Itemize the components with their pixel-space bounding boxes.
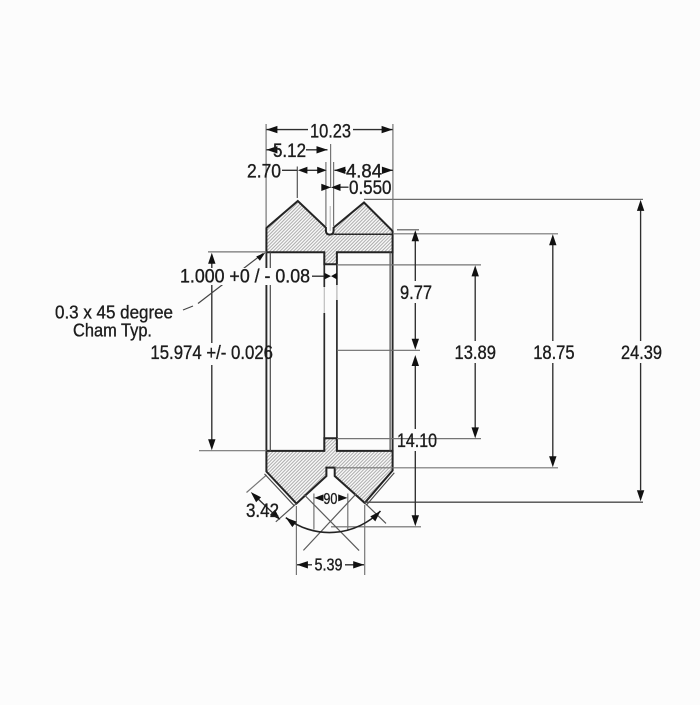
svg-text:15.974 +/- 0.026: 15.974 +/- 0.026 (150, 343, 273, 364)
svg-text:10.23: 10.23 (310, 121, 351, 142)
svg-text:9.77: 9.77 (400, 283, 432, 304)
svg-text:5.12: 5.12 (273, 141, 306, 162)
svg-text:18.75: 18.75 (533, 343, 574, 364)
svg-text:5.39: 5.39 (315, 555, 343, 575)
svg-text:2.70: 2.70 (247, 161, 281, 182)
svg-text:1.000 +0 / - 0.08: 1.000 +0 / - 0.08 (180, 267, 310, 288)
svg-text:24.39: 24.39 (621, 343, 662, 364)
svg-text:13.89: 13.89 (455, 343, 496, 364)
svg-text:14.10: 14.10 (397, 431, 437, 452)
svg-text:Cham Typ.: Cham Typ. (73, 320, 152, 341)
svg-text:3.42: 3.42 (246, 501, 279, 522)
svg-text:0.550: 0.550 (349, 178, 392, 199)
svg-text:90: 90 (323, 491, 337, 508)
